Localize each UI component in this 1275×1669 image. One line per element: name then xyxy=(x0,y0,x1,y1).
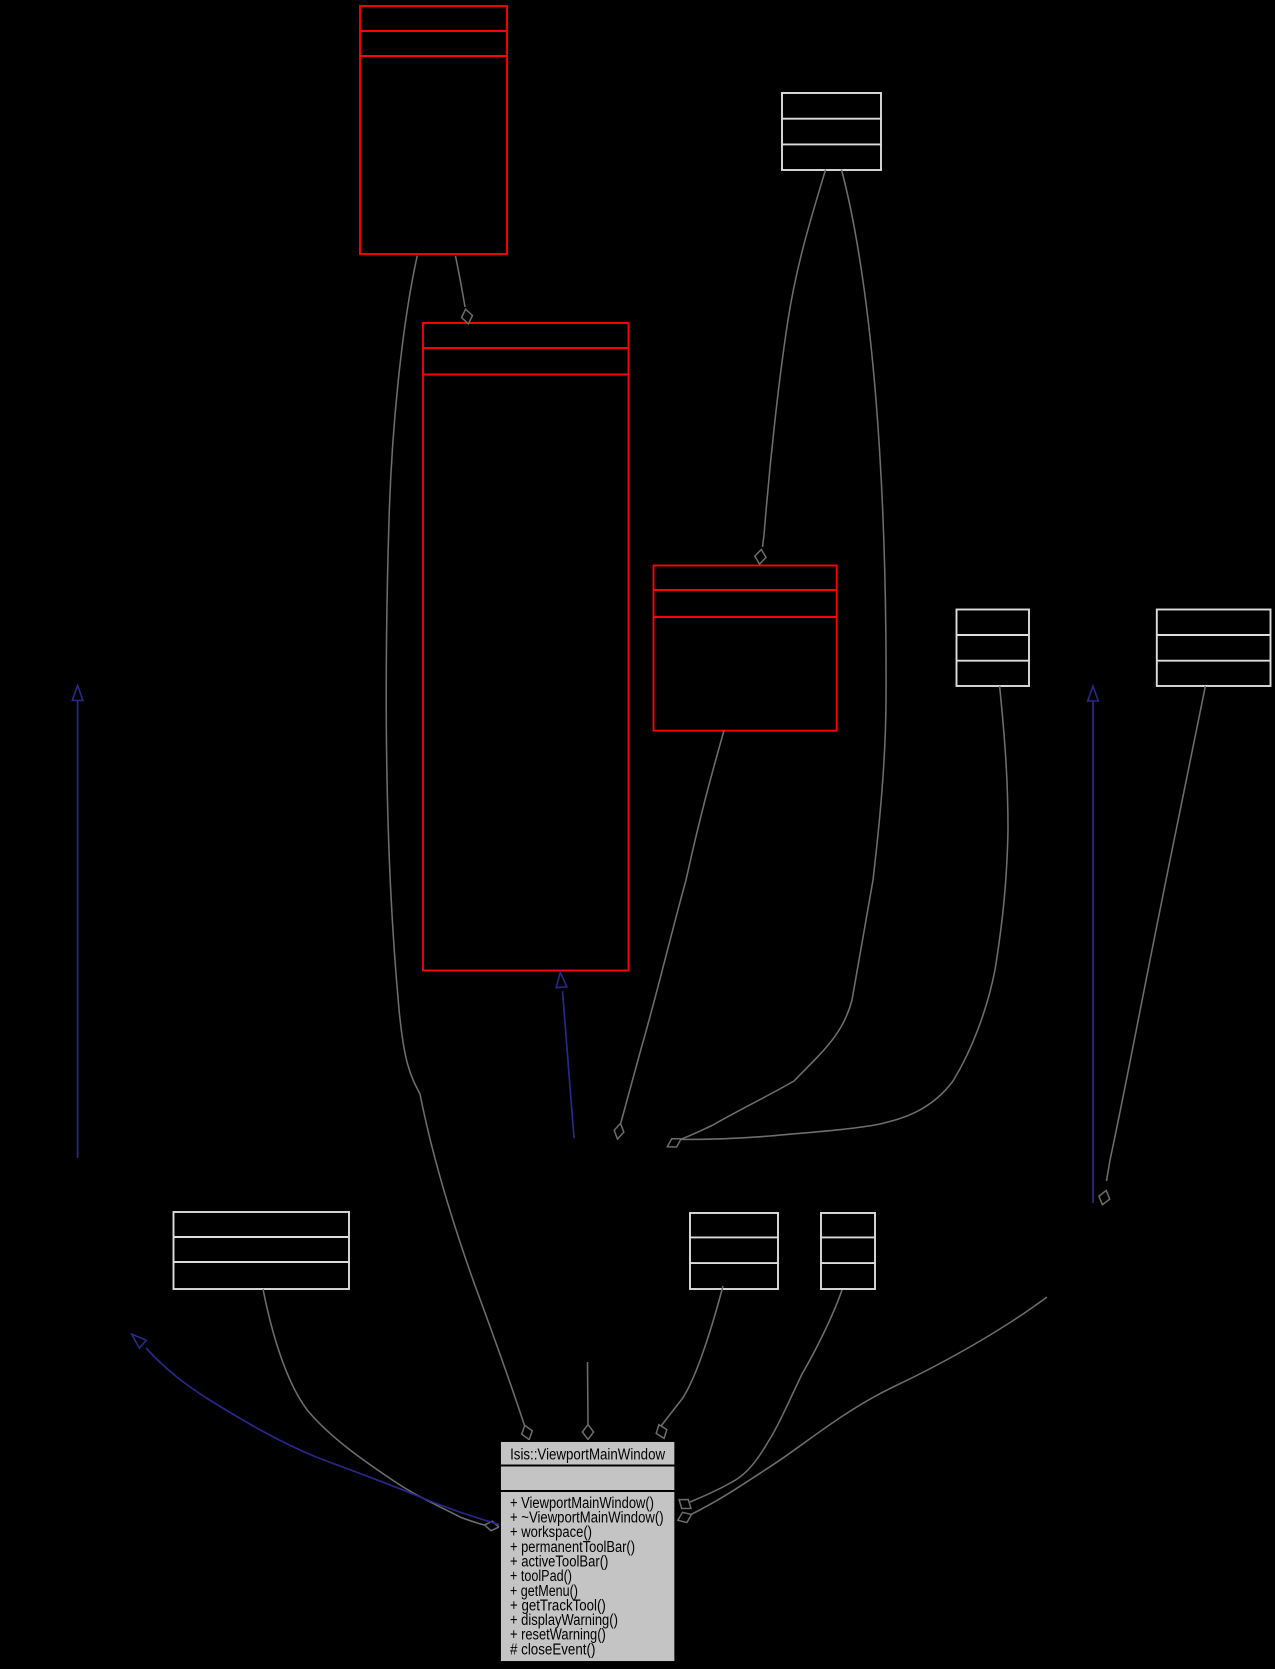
svg-text:# closeEvent(): # closeEvent() xyxy=(510,1641,595,1658)
svg-text:Isis::ViewportMainWindow: Isis::ViewportMainWindow xyxy=(510,1447,666,1464)
